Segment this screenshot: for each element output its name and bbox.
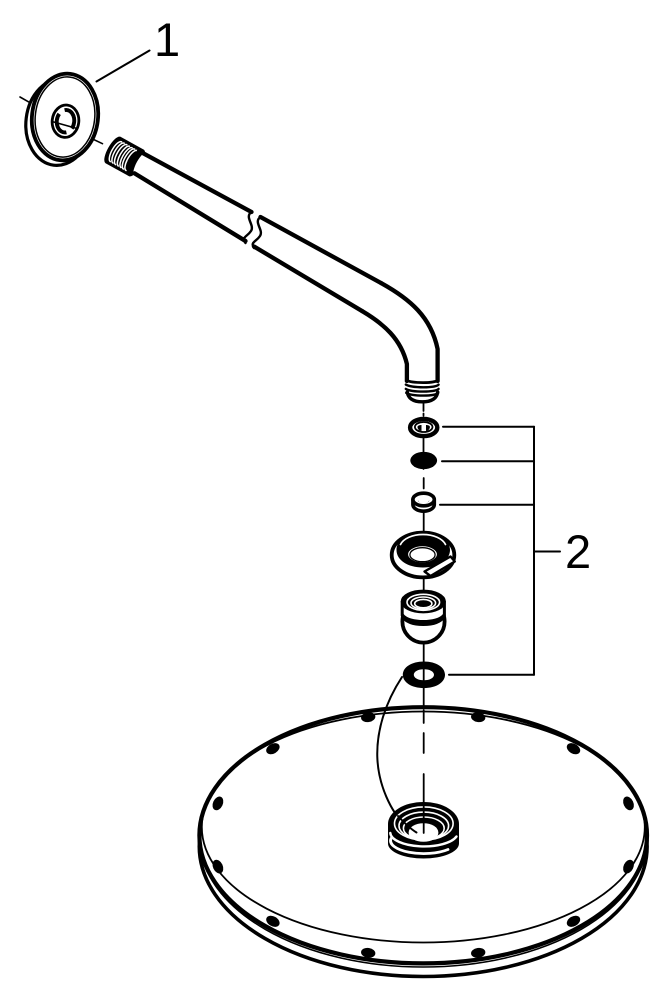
svg-text:2: 2 [565,525,591,578]
svg-text:1: 1 [154,13,180,66]
O-ring (black) [410,452,437,469]
thread crest lines (white) [109,142,137,171]
break squiggle right [253,217,261,248]
leader line tail into boss [398,816,417,833]
elbow inner (lower/left) [362,311,407,381]
central boss [388,802,459,859]
gasket (black ring) [403,662,445,689]
mounting ring [392,533,455,578]
break squiggle left [244,212,252,243]
vertical centerline segments [423,403,425,753]
centerline inside plate [423,710,425,753]
wall flange outer face [27,70,103,164]
washer [410,419,437,436]
tube lower edge before break [135,173,246,241]
shower plate bottom edge [199,717,647,977]
leader line to flange [97,51,150,82]
nozzle dots [210,711,636,958]
ball joint [402,591,445,643]
flange hole thread detail [65,110,75,129]
small nut [413,493,434,511]
shower plate chamfer line [200,710,647,967]
centerline (arm axis, dash-dot) [20,97,30,103]
wall flange back edge (thickness) [21,75,97,169]
shower arm wall thread (black block) [105,137,144,175]
tube lower edge after break [254,247,362,312]
wall flange inner rim [31,73,100,160]
arm tip bottom cap [407,392,437,402]
tube end step (white ellipse) [130,149,153,179]
elbow outer (upper/right) [381,283,438,381]
bracket for label 2 [440,427,560,675]
leader curve from gasket to plate boss [377,677,405,826]
centerline through hole [52,122,77,129]
centerline through boss [423,774,425,833]
shower arm tube (upper edge, before break) [139,151,252,212]
arm tip thread [407,380,438,382]
shower plate inner rim [202,712,645,943]
shower plate face [199,707,647,963]
flange hole [50,103,80,138]
tube upper edge after break [261,217,382,283]
